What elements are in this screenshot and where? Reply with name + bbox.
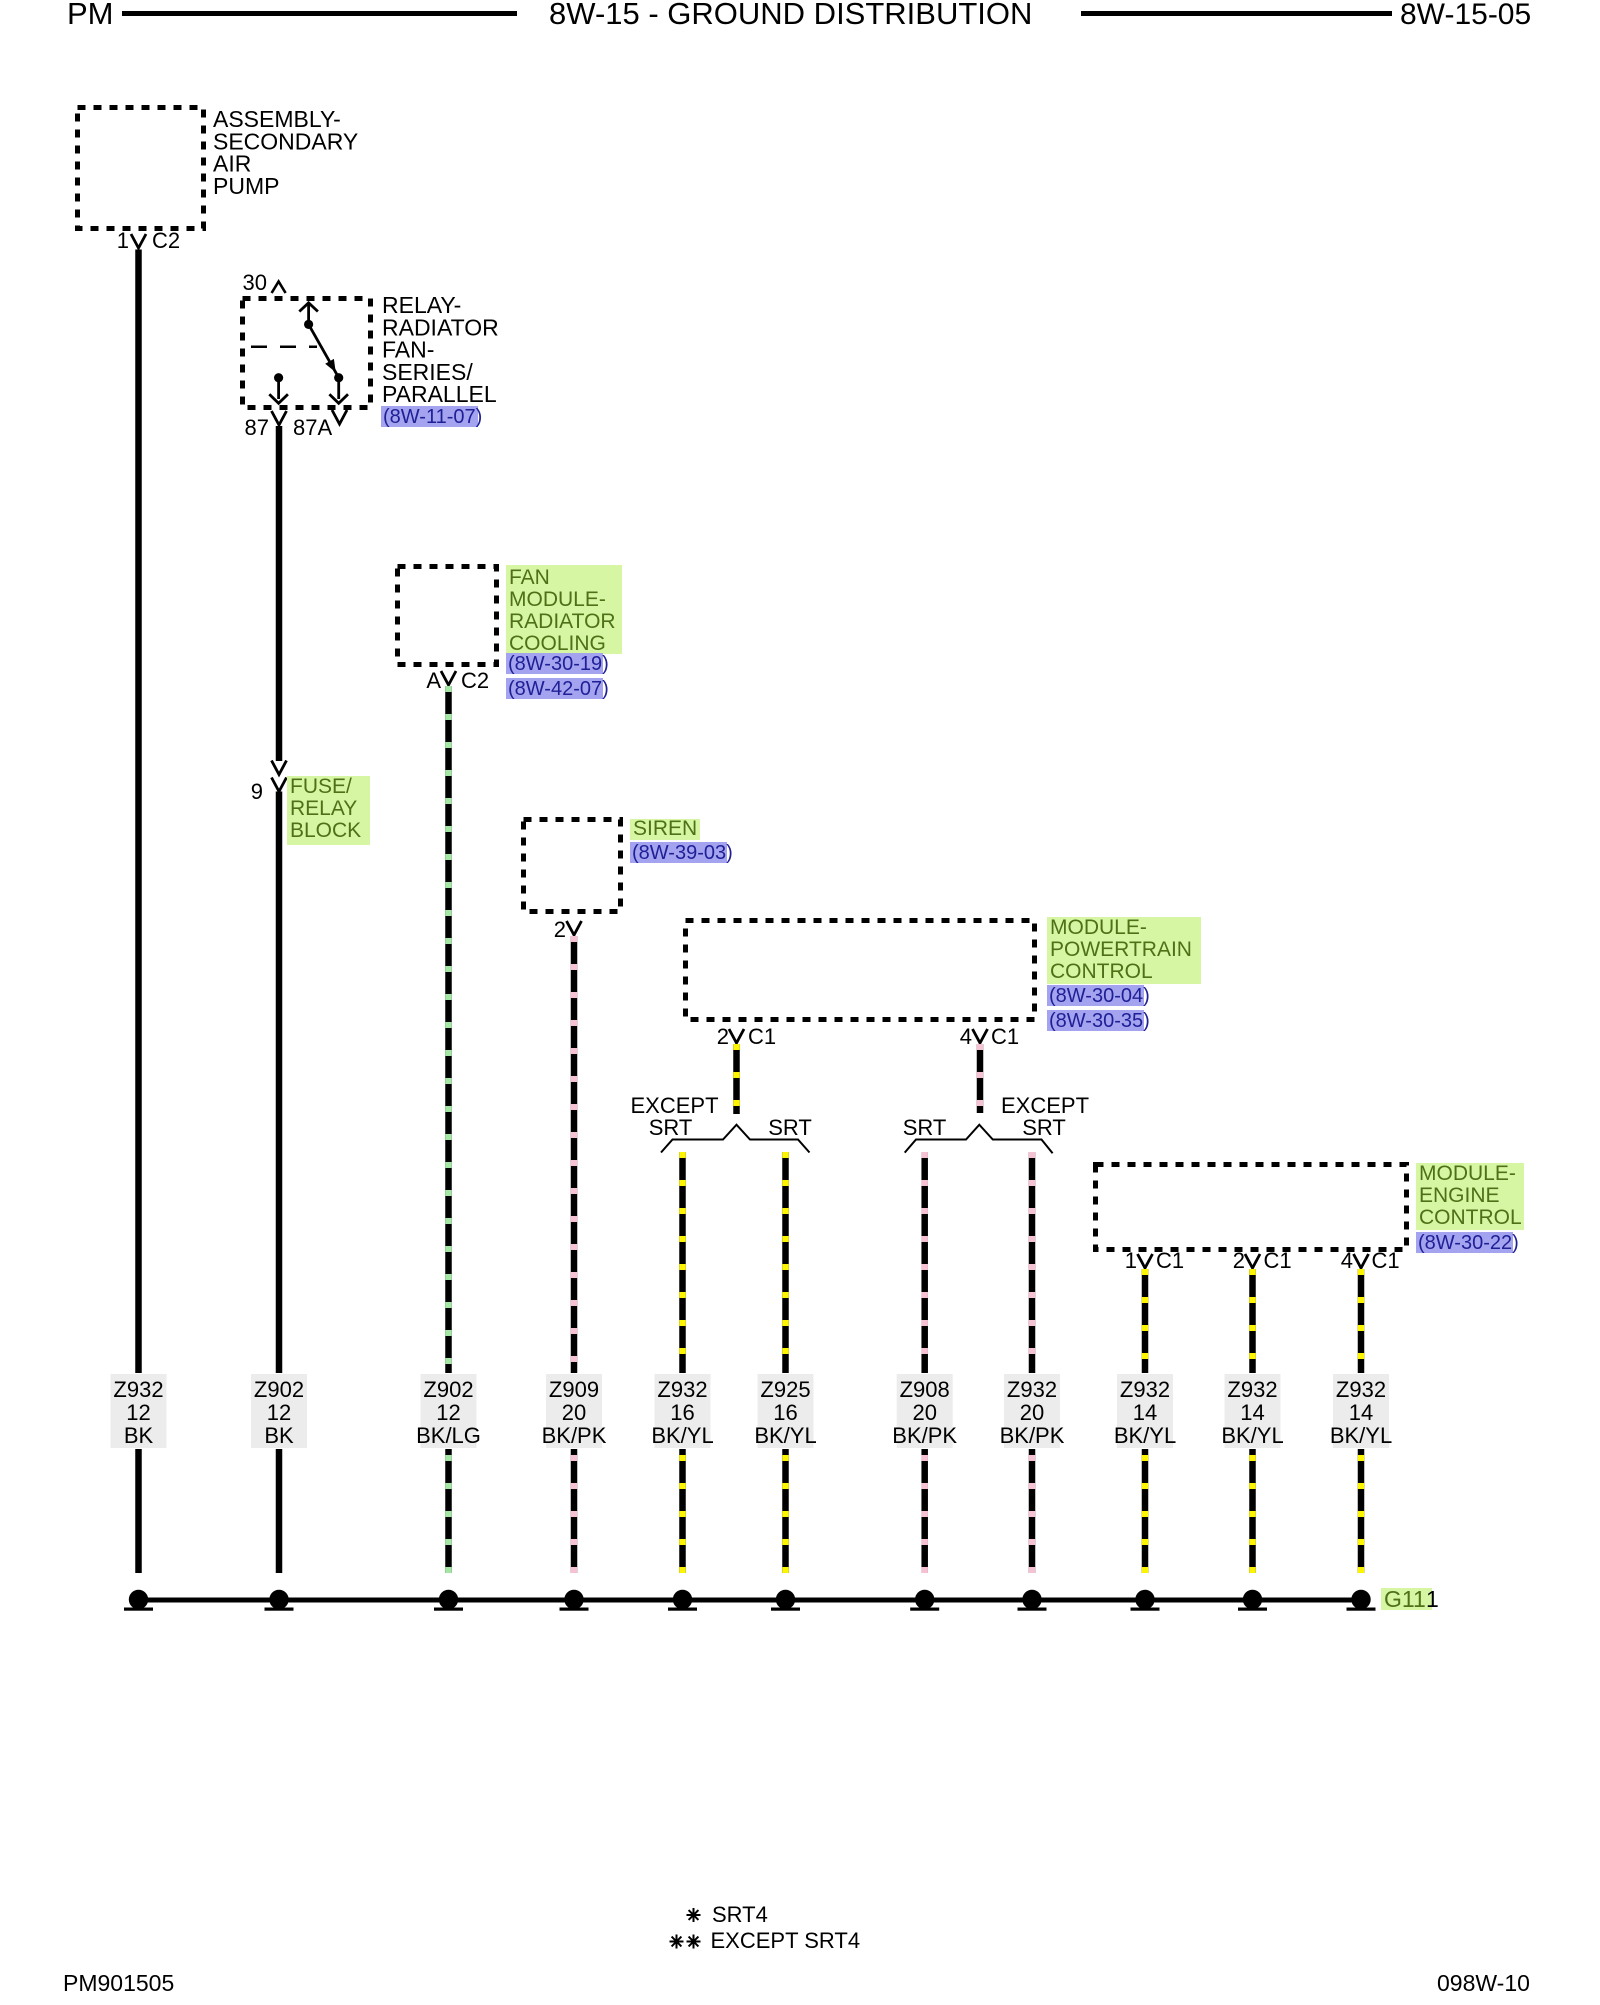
svg-text:14: 14 [1240, 1400, 1264, 1425]
wire label Z902 12 BK/LG [416, 1374, 481, 1448]
wire Z932 20 BK/PK (except SRT branch) [1029, 1152, 1036, 1373]
wire label Z925 16 BK/YL [754, 1374, 816, 1448]
label: module-powertrain control [1047, 916, 1201, 984]
svg-text:16: 16 [773, 1400, 797, 1425]
pin 2 of siren [554, 917, 582, 942]
svg-text:A: A [426, 668, 441, 693]
wire segment below label Z925 [782, 1449, 789, 1573]
wire segment below label Z902 [445, 1449, 452, 1573]
svg-text:12: 12 [436, 1400, 460, 1425]
svg-text:1: 1 [1426, 1586, 1439, 1612]
wire Z932 16 BK/YL (except SRT branch) [679, 1152, 686, 1373]
wire label Z909 20 BK/PK [542, 1374, 607, 1448]
ground junction dot 6 [771, 1590, 800, 1611]
wire Z909 20 BK/PK [571, 936, 578, 1373]
svg-text:12: 12 [267, 1400, 291, 1425]
wire label Z932 12 BK [111, 1374, 167, 1448]
ground junction dot 8 [1018, 1590, 1047, 1611]
svg-text:SIREN: SIREN [633, 817, 697, 840]
svg-text:BK: BK [124, 1423, 154, 1448]
relay label [382, 292, 499, 407]
svg-text:BK/YL: BK/YL [1114, 1423, 1176, 1448]
svg-text:C1: C1 [991, 1024, 1019, 1049]
pin 2 C1 of ECM [1233, 1248, 1292, 1273]
legend: * SRT4 [687, 1902, 768, 1927]
svg-text:MODULE-: MODULE- [1419, 1162, 1516, 1185]
svg-text:(8W-30-04): (8W-30-04) [1049, 985, 1150, 1007]
svg-text:CONTROL: CONTROL [1419, 1206, 1522, 1229]
module: powertrain control box [686, 921, 1035, 1020]
connector box: fan module-radiator cooling [398, 567, 497, 665]
svg-text:C2: C2 [461, 668, 489, 693]
svg-text:(8W-30-35): (8W-30-35) [1049, 1010, 1150, 1032]
ground junction dot 1 [124, 1590, 153, 1611]
svg-text:BK/PK: BK/PK [542, 1423, 607, 1448]
svg-text:POWERTRAIN: POWERTRAIN [1050, 938, 1192, 961]
wire Z902 12 BK lower segment [276, 792, 283, 1374]
svg-text:4: 4 [960, 1024, 972, 1049]
svg-text:BK/PK: BK/PK [1000, 1423, 1065, 1448]
svg-text:Z932: Z932 [1227, 1377, 1277, 1402]
svg-text:G11: G11 [1384, 1586, 1426, 1612]
svg-text:ENGINE: ENGINE [1419, 1184, 1500, 1207]
svg-text:8W-15-05: 8W-15-05 [1400, 0, 1531, 31]
wire segment below label Z932 [679, 1449, 686, 1573]
svg-text:BK/YL: BK/YL [1330, 1423, 1392, 1448]
svg-text:14: 14 [1349, 1400, 1373, 1425]
wire Z932 14 BK/YL from ECM 4 C1 [1358, 1269, 1365, 1373]
ground bus wire to G111 [139, 1598, 1362, 1603]
label: assembly-secondary air pump [213, 106, 358, 199]
pin 1 C2 of air pump [117, 228, 180, 253]
label: fuse/relay block [287, 775, 370, 845]
svg-text:9: 9 [251, 779, 263, 804]
ground junction dot 7 [910, 1590, 939, 1611]
svg-text:2: 2 [1233, 1248, 1245, 1273]
reference (8W-30-19) [506, 653, 609, 675]
ground junction dot 10 [1238, 1590, 1267, 1611]
svg-text:098W-10: 098W-10 [1437, 1970, 1530, 1996]
svg-text:BK/YL: BK/YL [754, 1423, 816, 1448]
svg-text:BLOCK: BLOCK [290, 819, 361, 842]
svg-text:Z909: Z909 [549, 1377, 599, 1402]
svg-text:FUSE/: FUSE/ [290, 775, 352, 798]
svg-text:Z902: Z902 [423, 1377, 473, 1402]
pin A C2 of fan module [426, 668, 489, 693]
relay contact 87A terminal [329, 373, 348, 403]
pin 4 C1 of ECM [1341, 1248, 1400, 1273]
branch labels EXCEPT SRT / SRT (left) [630, 1093, 811, 1140]
svg-text:(8W-30-19): (8W-30-19) [508, 653, 609, 675]
svg-text:PM901505: PM901505 [63, 1970, 174, 1996]
svg-text:BK/LG: BK/LG [416, 1423, 481, 1448]
pin 87A of relay [293, 410, 347, 440]
connector box: siren [524, 820, 621, 912]
ground junction dot 11 [1347, 1590, 1376, 1611]
svg-text:87A: 87A [293, 415, 332, 440]
wire segment below label Z932 [1029, 1449, 1036, 1573]
svg-text:Z932: Z932 [113, 1377, 163, 1402]
header rule right [1081, 11, 1392, 16]
wire label Z932 16 BK/YL [651, 1374, 713, 1448]
wire Z908 20 BK/PK (SRT branch) [921, 1152, 928, 1373]
wire segment below label Z909 [571, 1449, 578, 1573]
svg-text:8W-15 - GROUND DISTRIBUTION: 8W-15 - GROUND DISTRIBUTION [549, 0, 1032, 31]
ground node G111 [1381, 1586, 1439, 1612]
reference (8W-39-03) [630, 842, 733, 864]
svg-text:Z932: Z932 [657, 1377, 707, 1402]
wire label Z932 14 BK/YL [1221, 1374, 1283, 1448]
svg-text:(8W-42-07): (8W-42-07) [508, 678, 609, 700]
svg-text:SRT: SRT [1022, 1115, 1066, 1140]
svg-text:BK: BK [264, 1423, 294, 1448]
pin 1 C1 of ECM [1125, 1248, 1184, 1273]
svg-text:2: 2 [717, 1024, 729, 1049]
svg-text:1: 1 [1125, 1248, 1137, 1273]
module: engine control box [1096, 1165, 1407, 1250]
wire label Z932 14 BK/YL [1114, 1374, 1176, 1448]
svg-text:20: 20 [912, 1400, 936, 1425]
wire segment below label Z932 [1142, 1449, 1149, 1573]
svg-text:BK/PK: BK/PK [892, 1423, 957, 1448]
label: module-engine control [1416, 1162, 1524, 1230]
svg-text:C1: C1 [1264, 1248, 1292, 1273]
wire Z932 14 BK/YL from ECM 1 C1 [1142, 1269, 1149, 1373]
svg-text:RELAY: RELAY [290, 797, 357, 820]
wire from PCM 2 C1 (BK/YL) [733, 1044, 740, 1114]
svg-text:1: 1 [117, 228, 129, 253]
svg-text:Z932: Z932 [1120, 1377, 1170, 1402]
ground junction dot 5 [668, 1590, 697, 1611]
wire segment below label Z932 [1249, 1449, 1256, 1573]
svg-text:COOLING: COOLING [509, 632, 606, 655]
svg-text:20: 20 [562, 1400, 586, 1425]
connector box: assembly-secondary air pump [78, 108, 204, 229]
svg-text:16: 16 [670, 1400, 694, 1425]
svg-text:12: 12 [126, 1400, 150, 1425]
svg-text:2: 2 [554, 917, 566, 942]
svg-text:BK/YL: BK/YL [1221, 1423, 1283, 1448]
relay K1: radiator fan series/parallel box [243, 299, 371, 408]
ground junction dot 9 [1131, 1590, 1160, 1611]
svg-text:SRT4: SRT4 [712, 1902, 768, 1927]
svg-text:C1: C1 [748, 1024, 776, 1049]
svg-text:C1: C1 [1156, 1248, 1184, 1273]
svg-text:(8W-39-03): (8W-39-03) [632, 842, 733, 864]
svg-text:Z932: Z932 [1336, 1377, 1386, 1402]
pin 87 of relay [245, 411, 287, 440]
wire segment below label Z932 [1358, 1449, 1365, 1573]
wire Z925 16 BK/YL (SRT branch) [782, 1152, 789, 1373]
svg-text:SRT: SRT [768, 1115, 812, 1140]
svg-text:PM: PM [67, 0, 114, 31]
svg-text:Z902: Z902 [254, 1377, 304, 1402]
splice arrow into fuse/relay block [272, 761, 287, 775]
svg-text:SRT: SRT [649, 1115, 693, 1140]
relay contact 87 terminal [269, 373, 288, 403]
wire Z932 12 BK upper segment [135, 250, 142, 1374]
wire Z902 12 BK from relay 87 [276, 426, 283, 761]
wire segment below label Z902 [276, 1449, 283, 1573]
reference (8W-42-07) [506, 678, 609, 700]
wire segment below label Z908 [921, 1449, 928, 1573]
relay coil (dashed bar) [251, 346, 317, 349]
pin 2 C1 of PCM [717, 1024, 776, 1049]
svg-text:C2: C2 [152, 228, 180, 253]
svg-text:RADIATOR: RADIATOR [509, 610, 616, 633]
reference (8W-30-22) [1416, 1232, 1519, 1254]
pin 30 of relay [243, 270, 286, 295]
wire segment below label Z932 [135, 1449, 142, 1573]
svg-text:(8W-30-22): (8W-30-22) [1418, 1232, 1519, 1254]
reference (8W-30-04) [1047, 985, 1150, 1007]
branch labels SRT / EXCEPT SRT (right) [903, 1093, 1089, 1140]
ground junction dot 2 [265, 1590, 294, 1611]
svg-text:C1: C1 [1372, 1248, 1400, 1273]
svg-text:BK/YL: BK/YL [651, 1423, 713, 1448]
wire label Z932 20 BK/PK [1000, 1374, 1065, 1448]
svg-text:PUMP: PUMP [213, 173, 279, 199]
svg-text:20: 20 [1020, 1400, 1044, 1425]
legend: ** EXCEPT SRT4 [670, 1928, 861, 1953]
wire Z932 14 BK/YL from ECM 2 C1 [1249, 1269, 1256, 1373]
svg-text:Z932: Z932 [1007, 1377, 1057, 1402]
wire label Z932 14 BK/YL [1330, 1374, 1392, 1448]
svg-text:PARALLEL: PARALLEL [382, 381, 497, 407]
header rule left [122, 11, 517, 16]
svg-text:FAN: FAN [509, 566, 550, 589]
svg-text:SRT: SRT [903, 1115, 947, 1140]
branch bracket under PCM 2 C1 [661, 1125, 810, 1153]
relay common contact arm (pin 30 arrow) [299, 303, 318, 329]
cavity 9 connector V [272, 778, 287, 792]
label: fan module-radiator cooling [506, 565, 622, 655]
ground junction dot 4 [560, 1590, 589, 1611]
wire Z902 12 BK/LG [445, 686, 452, 1373]
svg-text:CONTROL: CONTROL [1050, 960, 1153, 983]
svg-text:Z925: Z925 [760, 1377, 810, 1402]
svg-text:MODULE-: MODULE- [509, 588, 606, 611]
svg-text:14: 14 [1133, 1400, 1157, 1425]
svg-text:Z908: Z908 [900, 1377, 950, 1402]
label: siren [630, 817, 700, 840]
wire label Z902 12 BK [251, 1374, 307, 1448]
reference (8W-30-35) [1047, 1010, 1150, 1032]
reference (8W-11-07) [381, 406, 482, 428]
svg-text:EXCEPT SRT4: EXCEPT SRT4 [711, 1928, 861, 1953]
wire from PCM 4 C1 (BK/PK) [977, 1044, 984, 1113]
relay movable contact to 87A with arrowhead [309, 324, 339, 377]
svg-text:30: 30 [243, 270, 267, 295]
ground junction dot 3 [434, 1590, 463, 1611]
wire label Z908 20 BK/PK [892, 1374, 957, 1448]
pin 4 C1 of PCM [960, 1024, 1019, 1049]
svg-text:87: 87 [245, 415, 269, 440]
svg-text:MODULE-: MODULE- [1050, 916, 1147, 939]
svg-text:(8W-11-07): (8W-11-07) [383, 406, 482, 428]
svg-text:4: 4 [1341, 1248, 1353, 1273]
branch bracket under PCM 4 C1 [905, 1125, 1053, 1154]
